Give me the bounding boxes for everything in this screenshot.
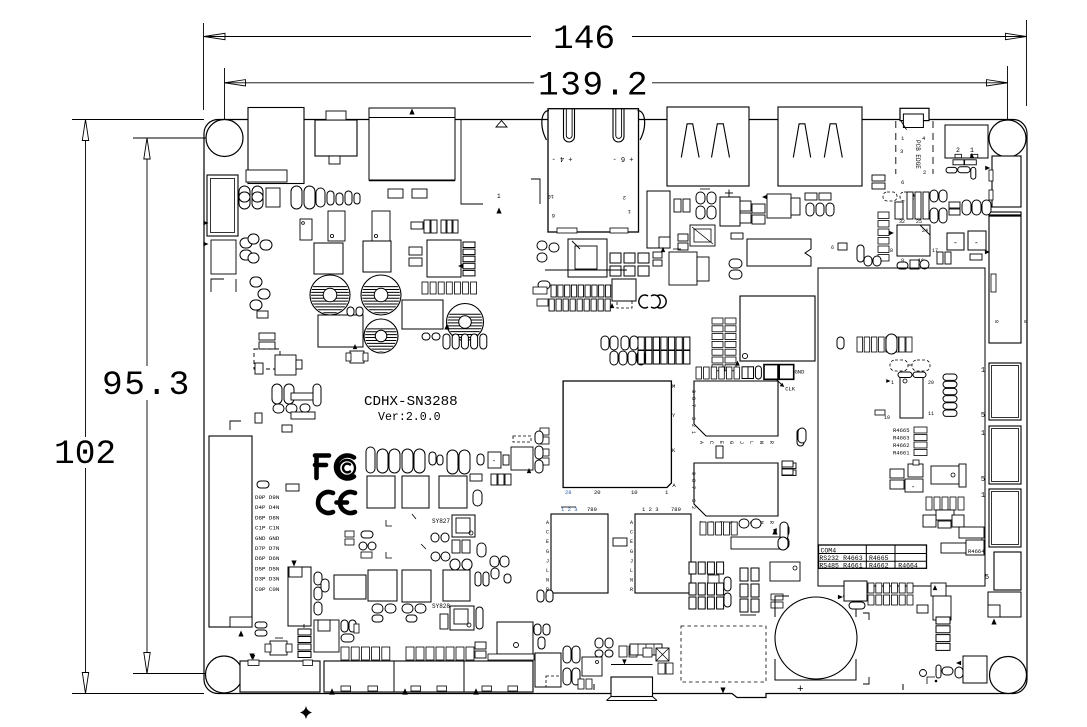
svg-text:7: 7 [690, 404, 696, 407]
mounting hole top-left [206, 120, 243, 157]
svg-text:C: C [708, 441, 714, 444]
long resistor strip [731, 537, 782, 549]
marker below J14 [991, 619, 996, 625]
svg-text:1: 1 [891, 380, 894, 386]
svg-text:COM4: COM4 [821, 547, 837, 554]
svg-text:10: 10 [547, 193, 554, 200]
svg-text:D8P D8N: D8P D8N [255, 514, 280, 521]
capacitor cluster 2 [291, 186, 302, 209]
power header J7 [945, 125, 988, 158]
svg-text:R4664: R4664 [898, 563, 918, 570]
component rect [314, 620, 339, 652]
svg-text:GND: GND [795, 369, 806, 376]
pills above U16 [898, 372, 912, 378]
dimension 95.3 arrow top [144, 138, 150, 159]
USB J6 blade 1 [793, 124, 810, 158]
RJ45 right ear [638, 111, 645, 141]
svg-text:R4662: R4662 [893, 442, 910, 449]
buck regulator U3 [372, 211, 390, 241]
svg-text:G: G [728, 441, 734, 444]
caps row bottom left [341, 647, 349, 660]
tantalum caps with minus [947, 233, 964, 250]
bottom right components [963, 656, 987, 683]
battery bracket marks [863, 613, 869, 620]
svg-text:A: A [630, 520, 633, 526]
vertical connector J19 [288, 567, 311, 626]
caps pair right [422, 333, 430, 340]
CLK label [777, 380, 784, 387]
electrolytic cap C1 rectangular [207, 175, 238, 236]
svg-text:8: 8 [690, 479, 696, 482]
small squares below HDMI [388, 189, 403, 198]
dimension 146 extension line left [203, 23, 205, 110]
dimension 95.3 arrow bottom [144, 653, 150, 674]
svg-text:RS485: RS485 [819, 563, 839, 570]
resistors right [740, 201, 751, 211]
isolator chip U16 [900, 375, 923, 418]
square chip row2 Q7 [368, 570, 397, 601]
left edge connector J18 [209, 436, 252, 627]
svg-text:D5P D5N: D5P D5N [255, 565, 280, 572]
svg-text:L: L [748, 441, 754, 444]
svg-text:789: 789 [671, 506, 681, 513]
cap row of 5 [443, 334, 450, 349]
caps stack top right [872, 175, 885, 181]
cap with bracket [511, 447, 533, 470]
PCB edge connector shell [900, 108, 929, 120]
svg-text:10: 10 [884, 415, 890, 421]
ethernet transformer U6 [568, 239, 607, 277]
svg-text:R4662: R4662 [869, 563, 889, 570]
RJ45 slot left [564, 109, 575, 142]
svg-text:C1P C1N: C1P C1N [255, 525, 280, 532]
chip U15 [897, 225, 930, 256]
caps cluster 4 [272, 384, 282, 404]
chip U9 large [740, 296, 815, 361]
svg-text:PCB EDGE: PCB EDGE [914, 140, 921, 169]
E3 mark [639, 295, 648, 308]
component 6 label [838, 243, 847, 250]
dimension 139.2 line [225, 82, 535, 84]
HDMI connector J3 [369, 108, 455, 180]
svg-text:+: + [797, 684, 804, 696]
USB J5 blade 2 [712, 124, 730, 158]
svg-text:102: 102 [54, 435, 116, 474]
U16 labels [886, 379, 890, 383]
parts cluster lower region [936, 510, 954, 520]
rects pair small [653, 252, 662, 258]
svg-text:E: E [718, 441, 724, 444]
squares pair [674, 199, 681, 212]
components mid region [890, 469, 904, 478]
BGA chip U10 [563, 381, 671, 488]
svg-text:E: E [630, 539, 633, 545]
dimension 95.3 extension bottom [133, 673, 208, 675]
svg-text:146: 146 [553, 20, 615, 59]
dimension 95.3 extension top [133, 137, 222, 139]
svg-text:3: 3 [900, 148, 903, 155]
svg-text:3: 3 [690, 499, 696, 502]
pills group right [450, 559, 460, 570]
J15 top tabs [248, 660, 259, 666]
keepout bracket left of RJ45 [461, 120, 483, 204]
svg-text:25: 25 [916, 219, 922, 225]
svg-text:8: 8 [993, 320, 999, 323]
RJ45 bottom tabs [557, 228, 577, 233]
transistor Q1 with pads [254, 349, 280, 369]
svg-text:+ 4 -: + 4 - [551, 154, 572, 162]
bottom edge tick marks [593, 684, 595, 690]
svg-text:2: 2 [623, 194, 626, 201]
svg-text:1: 1 [690, 431, 696, 434]
mounting hole top-right [989, 120, 1026, 157]
svg-text:R4661: R4661 [893, 450, 910, 457]
left column small parts [282, 425, 292, 432]
resistor array RA2 [549, 299, 554, 311]
caps right [341, 620, 348, 632]
svg-text:139.2: 139.2 [538, 67, 649, 106]
electrolytic cap C6 square [720, 197, 740, 226]
svg-text:11: 11 [928, 411, 934, 417]
svg-text:Ver:2.0.0: Ver:2.0.0 [378, 411, 441, 424]
USB dual connector J6 [778, 107, 862, 186]
audio jack J2 [315, 120, 357, 156]
resistor strip in region [857, 337, 863, 352]
resistor pair [771, 594, 783, 600]
svg-text:C: C [630, 530, 633, 536]
inductor L3 [402, 300, 443, 329]
caps right cluster 2 [431, 533, 439, 542]
strip below U19 [488, 654, 534, 660]
svg-text:20: 20 [928, 380, 934, 386]
caps row below U5 [422, 282, 428, 294]
svg-text:-: - [911, 484, 915, 492]
resistor array column [298, 629, 311, 635]
trace line [740, 614, 756, 616]
crossed component X1 [690, 225, 715, 246]
caps cluster below USB [696, 192, 705, 204]
fiducial triangle top edge [496, 121, 507, 128]
svg-text:R4663: R4663 [893, 435, 910, 442]
resistor array RA1 [551, 285, 556, 297]
bottom connector strip J16 [324, 661, 533, 692]
svg-text:95.3: 95.3 [102, 366, 191, 405]
pill stack right of J19 [314, 572, 322, 585]
dimension 95.3 line [146, 159, 148, 366]
components below power header [955, 154, 962, 158]
svg-text:28: 28 [565, 489, 572, 496]
caps group [595, 638, 603, 648]
USB J6 blade 2 [824, 124, 842, 158]
cap between chips [716, 446, 723, 458]
pills left of region lower [780, 522, 788, 540]
resistor [731, 233, 743, 239]
component with pin1 dot [770, 562, 800, 581]
dimension 102 arrow top [82, 120, 88, 141]
inductor L4 [318, 315, 363, 347]
svg-text:6: 6 [831, 245, 834, 251]
PCB edge dashed outline [895, 121, 897, 174]
small rects pair [678, 234, 688, 241]
buck regulator U2 [328, 211, 345, 241]
svg-text:R4663: R4663 [843, 555, 863, 562]
FCC logo [315, 456, 329, 479]
caps pair near L4 [347, 307, 354, 316]
small resistor stack [259, 333, 275, 340]
K symbol component [656, 648, 669, 661]
caps pills [729, 259, 742, 268]
cap column left of U10 [540, 428, 549, 435]
cap stack vertical [250, 277, 262, 287]
svg-text:R4665: R4665 [869, 555, 889, 562]
caps cluster above squares [366, 447, 375, 473]
svg-text:2: 2 [690, 424, 696, 427]
svg-text:CDHX-SN3288: CDHX-SN3288 [364, 394, 458, 410]
dashed caps row [883, 192, 897, 201]
caps grid right of U6 [610, 253, 621, 263]
caps below U15 [897, 262, 908, 269]
svg-text:2: 2 [923, 169, 926, 176]
dimension 102 line [85, 140, 87, 437]
right connector J13 [994, 552, 1021, 590]
svg-text:1: 1 [497, 193, 501, 200]
DC jack bottom tab [246, 170, 287, 182]
caps row [926, 497, 932, 510]
square chip row2 Q9 [443, 570, 470, 601]
board outline [204, 120, 1027, 698]
dimension 139.2 extension line left [224, 68, 226, 136]
dashed pills [890, 360, 908, 371]
connector J21 [844, 581, 867, 601]
bottom center connector J17 [611, 664, 653, 666]
HDMI pin-1 triangle [409, 109, 414, 115]
mounting hole bottom-left [206, 656, 243, 693]
caps below row2 [372, 604, 383, 613]
svg-text:3: 3 [690, 417, 696, 420]
dimension 146 arrow right [1006, 33, 1027, 39]
bottom arrow marker [720, 688, 725, 694]
resistor stack column [936, 617, 950, 624]
svg-text:-: - [974, 239, 979, 248]
svg-text:R: R [630, 587, 633, 593]
svg-text:5: 5 [981, 476, 985, 484]
svg-text:6: 6 [552, 212, 555, 219]
RJ45 ethernet connector J4 [548, 109, 639, 232]
caps cluster mid [345, 531, 354, 537]
pills column [724, 577, 731, 591]
pill right of U11 [797, 429, 804, 446]
svg-text:1: 1 [981, 492, 985, 500]
caps below U12 [700, 522, 706, 535]
caps column right of U16 [943, 374, 957, 380]
tall cap right of RJ45 [647, 191, 670, 248]
parts right of grid [931, 583, 946, 596]
svg-text:C: C [546, 530, 549, 536]
caps below SY827 [452, 540, 460, 553]
svg-text:M: M [672, 383, 675, 390]
resistors pair [409, 247, 422, 255]
fiducial diamond below board [300, 706, 312, 719]
svg-text:10: 10 [631, 489, 638, 496]
caps cluster 3 [240, 238, 252, 248]
polarity triangle [496, 208, 501, 214]
caps grid left of battery [689, 562, 696, 574]
dimension 139.2 arrow left [225, 80, 246, 86]
svg-text:D4P D4N: D4P D4N [255, 504, 280, 511]
pills pair bottom [537, 590, 544, 602]
right connector J14 small [988, 592, 1021, 617]
caps 2x7 grid [638, 337, 644, 350]
svg-text:20: 20 [594, 489, 601, 496]
USB J5 blade 1 [681, 124, 699, 158]
transistor Q10 [270, 641, 287, 655]
square chip row2 Q8 [402, 570, 431, 602]
small rects below caps [470, 474, 482, 481]
svg-text:1: 1 [981, 367, 985, 375]
square chip row1 Q5 [439, 476, 467, 508]
svg-text:SY828: SY828 [432, 603, 450, 610]
svg-text:R4661: R4661 [843, 563, 863, 570]
svg-text:SY827: SY827 [432, 518, 450, 525]
RJ45 left ear [542, 111, 549, 141]
DC power jack J1 [248, 108, 304, 184]
svg-text:D7P D7N: D7P D7N [255, 545, 280, 552]
resistor grid 2x6 [868, 583, 874, 593]
square chip row1 Q3 [367, 476, 395, 508]
dimension 146 arrow left [204, 33, 225, 39]
svg-text:A: A [546, 520, 549, 526]
mounting hole bottom-right [990, 657, 1027, 694]
bottom edge triangles [329, 688, 335, 694]
svg-text:J: J [630, 558, 633, 564]
svg-text:8: 8 [890, 248, 893, 254]
marks between rows [386, 520, 392, 526]
svg-text:9: 9 [690, 390, 696, 393]
svg-text:A: A [698, 441, 704, 444]
corner bracket 2 [230, 421, 241, 430]
dimension 139.2 extension line right [1007, 66, 1009, 132]
isolation region outline [818, 268, 985, 586]
svg-text:+ 6 -: + 6 - [612, 154, 633, 162]
svg-text:24: 24 [922, 228, 928, 234]
diode D1 [211, 240, 236, 274]
component with dot [582, 657, 602, 676]
marker arrow [249, 654, 254, 660]
right connector J10 [989, 363, 1021, 420]
resistor R1 [266, 188, 280, 207]
strip horizontal [630, 644, 662, 655]
battery holder BT1 [775, 659, 856, 680]
small rects [917, 605, 928, 613]
keepout line below RJ45 [545, 269, 627, 271]
square chip row1 Q4 [402, 476, 429, 508]
square chip row2 Q6 [334, 575, 366, 599]
pill left of labels [257, 481, 269, 488]
svg-text:8: 8 [1022, 320, 1028, 323]
dimension 102 extension bottom [72, 693, 204, 695]
svg-text:-: - [492, 458, 496, 466]
svg-text:2: 2 [956, 147, 960, 154]
svg-text:6: 6 [901, 179, 904, 186]
capacitor pair cluster 1 [239, 186, 250, 209]
svg-text:32: 32 [899, 219, 905, 225]
caps right cluster [930, 190, 938, 202]
caps grid pairs [601, 336, 609, 350]
svg-text:J: J [738, 441, 744, 444]
RJ45 inner body [547, 179, 549, 196]
svg-text:R: R [768, 441, 774, 444]
svg-text:N: N [546, 578, 549, 584]
caps row bottom mid [406, 647, 414, 660]
svg-text:RS232: RS232 [819, 555, 839, 562]
bottom connector J15 [240, 661, 320, 692]
svg-text:G: G [630, 549, 633, 555]
svg-text:R4664: R4664 [968, 548, 985, 555]
chip U13 [551, 514, 608, 593]
right connector J12 [989, 489, 1021, 547]
svg-text:-: - [953, 239, 958, 248]
svg-text:1: 1 [981, 430, 985, 438]
corner bracket [211, 279, 224, 292]
svg-text:7: 7 [690, 486, 696, 489]
chip U7 [612, 279, 636, 301]
inductor L1 [314, 243, 343, 274]
regulator U4 with dot [300, 219, 312, 240]
svg-text:R4665: R4665 [893, 427, 910, 434]
right connector J11 [989, 426, 1021, 484]
dimension 146 line [204, 36, 532, 38]
svg-text:D9P D9N: D9P D9N [255, 494, 280, 501]
component with arrow [767, 194, 791, 218]
svg-text:5: 5 [981, 412, 985, 420]
caps strip above chips [696, 367, 702, 379]
CE logo [318, 492, 333, 513]
svg-text:1: 1 [970, 147, 974, 154]
svg-text:2: 2 [690, 506, 696, 509]
pill [857, 245, 864, 262]
DIP chip U8 [747, 239, 811, 266]
small caps row [327, 191, 334, 205]
svg-text:789: 789 [587, 506, 597, 513]
marker below J18 [238, 631, 243, 637]
svg-text:N: N [758, 441, 764, 444]
resistor network array left of U9 [712, 318, 723, 324]
svg-text:E: E [546, 539, 549, 545]
svg-text:C0P C0N: C0P C0N [255, 586, 280, 593]
pill in region [837, 337, 844, 349]
dashed footprint [617, 301, 632, 308]
resistor between U13 U14 [613, 538, 627, 546]
GND CLK components left of region [798, 428, 806, 443]
SY828 regulator U18 [450, 606, 474, 630]
caps pair [255, 622, 267, 628]
U5 pin row right [463, 242, 475, 248]
svg-text:CLK: CLK [785, 386, 796, 393]
component with plus [669, 252, 697, 285]
svg-text:J: J [546, 558, 549, 564]
connector J20 small [535, 653, 561, 687]
RJ45 slot right [613, 109, 624, 142]
SY827 regulator U17 [452, 515, 475, 537]
rects below right [782, 463, 796, 469]
svg-text:5: 5 [985, 574, 989, 582]
marker triangle [444, 324, 449, 330]
svg-text:D6P D6N: D6P D6N [255, 555, 280, 562]
caps left of RA1 [538, 281, 550, 289]
svg-text:1 2 3: 1 2 3 [642, 506, 659, 513]
svg-text:R: R [768, 521, 774, 524]
bottom strip tabs [341, 686, 351, 691]
